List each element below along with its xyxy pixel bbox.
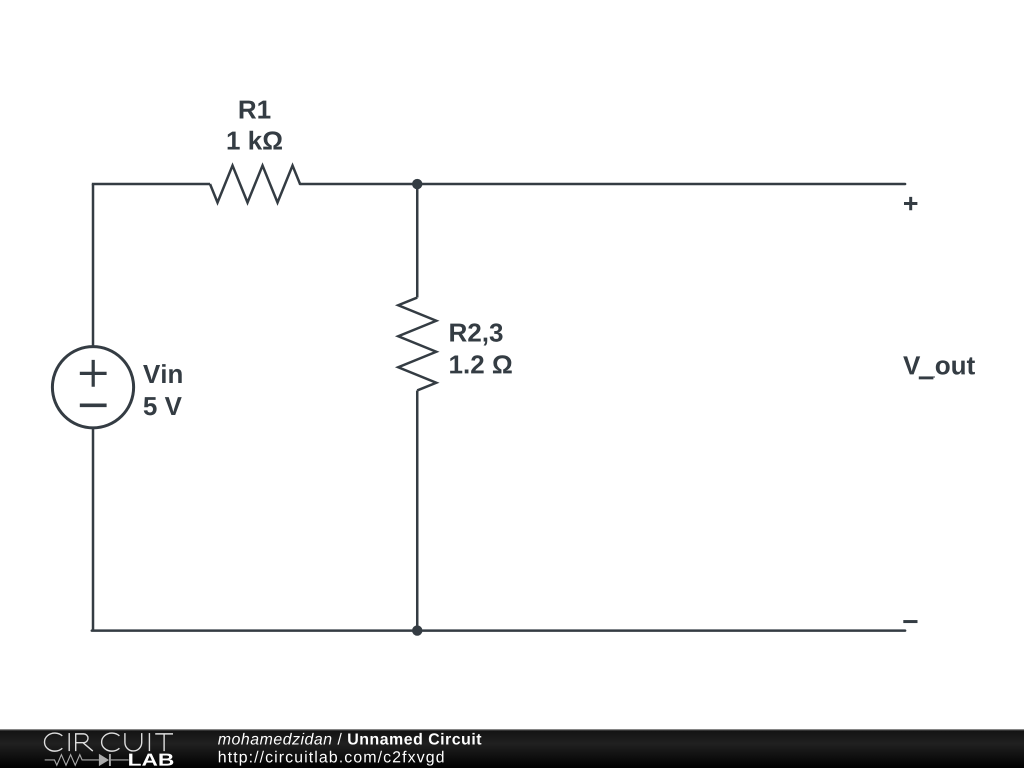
CircuitLab logo word LAB: [129, 754, 173, 766]
label R2,3: [450, 323, 502, 345]
label R1 value 1 kOhm: [228, 131, 282, 150]
label net V_out: [903, 356, 975, 377]
CircuitLab logo diode: [99, 754, 109, 766]
wire from R1 to V_out plus terminal: [300, 183, 905, 186]
wire bottom-left vertical: [92, 428, 95, 631]
wire top-left vertical: [92, 184, 95, 347]
label R1: [240, 101, 271, 119]
V_out plus polarity mark: [904, 197, 917, 210]
label Vin: [143, 364, 182, 383]
resistor R1: [210, 166, 300, 203]
footer attribution line: [218, 733, 481, 745]
footer url line: [219, 751, 444, 766]
V_out minus polarity mark: [903, 620, 917, 623]
resistor R2,3: [398, 298, 436, 391]
label net V_out underscore: [919, 376, 934, 379]
wire bottom rail: [92, 629, 905, 632]
node A junction dot: [412, 179, 422, 189]
node B junction dot: [412, 625, 422, 635]
CircuitLab logo squiggle wire: [45, 754, 129, 766]
wire R2,3 bottom to bottom rail: [416, 390, 419, 630]
label R2,3 value 1.2 Ohm: [450, 355, 512, 373]
wire node A to R2,3 top: [416, 184, 419, 298]
wire top from source to R1: [92, 183, 210, 186]
footer bar top highlight line: [0, 729, 1024, 730]
CircuitLab logo word CIRCUIT: [45, 733, 174, 751]
voltage source Vin: [52, 347, 133, 428]
label Vin value 5 V: [144, 397, 182, 415]
